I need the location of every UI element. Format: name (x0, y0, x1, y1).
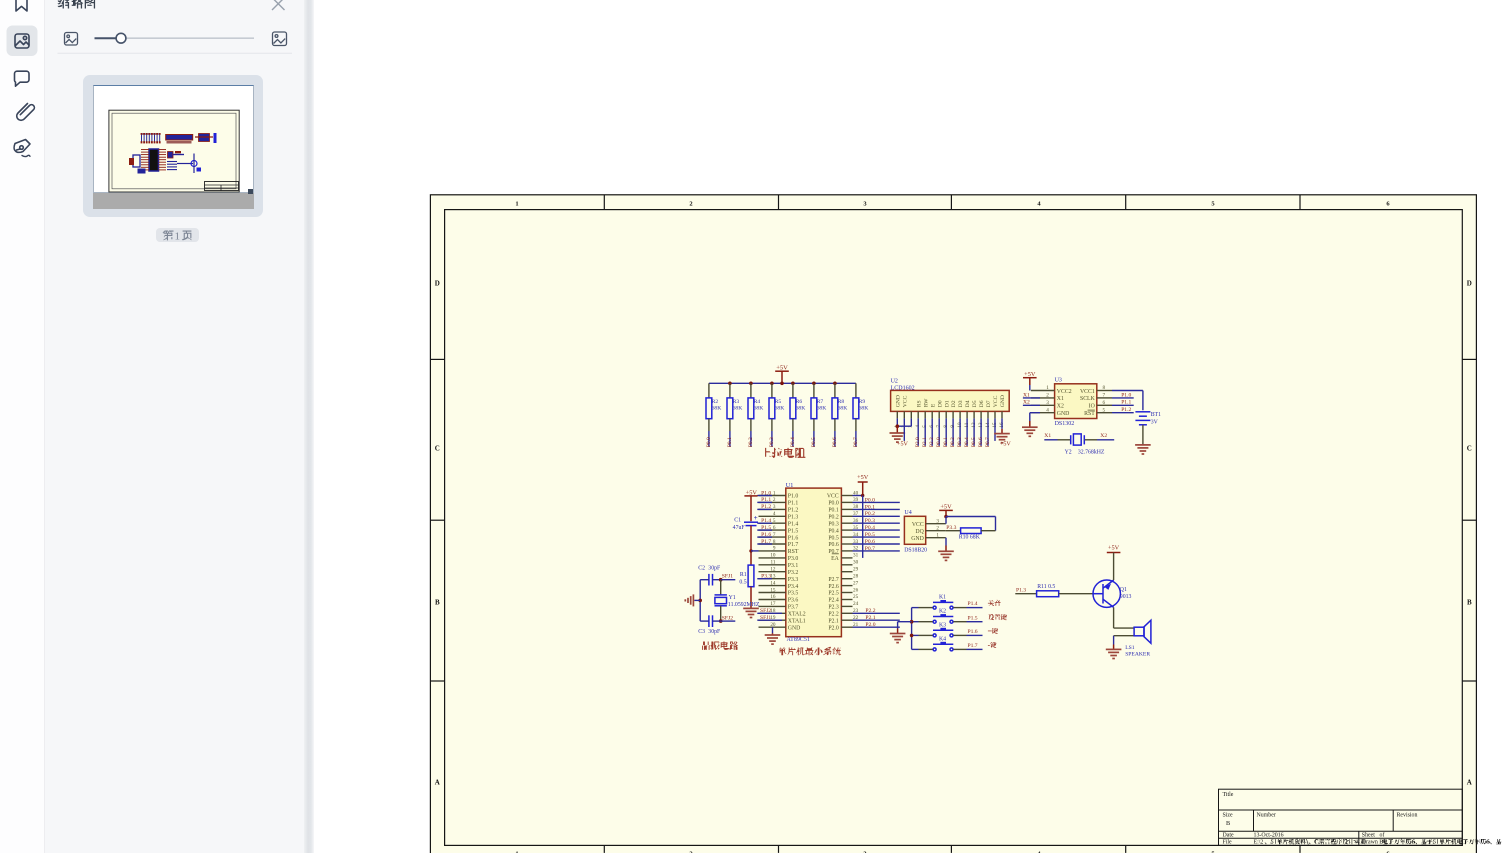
wire DS18B20 GND (945, 538, 947, 546)
sheet background (430, 194, 1477, 853)
svg-text:K3: K3 (939, 622, 946, 628)
svg-text:P0.0: P0.0 (828, 501, 839, 507)
svg-text:C3: C3 (698, 629, 705, 635)
svg-text:P1.7: P1.7 (788, 542, 799, 548)
svg-text:P2.2: P2.2 (929, 437, 935, 447)
svg-text:D0: D0 (937, 400, 943, 407)
wire net P1.4 (967, 601, 983, 607)
label key function (988, 614, 1007, 620)
battery BT1 3V (1135, 412, 1161, 426)
svg-text:VCC: VCC (912, 522, 924, 528)
svg-text:15: 15 (770, 587, 776, 593)
svg-text:P0.0: P0.0 (936, 437, 942, 447)
svg-text:68K: 68K (838, 405, 848, 411)
svg-text:Date: Date (1223, 833, 1235, 839)
svg-text:P3.3: P3.3 (788, 577, 799, 583)
wire net SFJ2 (721, 615, 736, 621)
junction SFJ1 (719, 578, 723, 582)
svg-text:GND: GND (1057, 411, 1070, 417)
svg-text:D: D (435, 280, 440, 288)
svg-text:GND: GND (895, 395, 901, 407)
junction (698, 599, 702, 603)
wire LCD pin 8 net P0.1 (943, 418, 949, 447)
svg-text:P0.0: P0.0 (865, 497, 875, 503)
svg-text:P1.7: P1.7 (968, 643, 978, 649)
svg-text:3: 3 (773, 504, 776, 510)
wire U1 GND (772, 627, 774, 633)
wire net P0.0 (853, 497, 900, 503)
svg-text:D: D (1467, 280, 1472, 288)
svg-text:Drawn By: Drawn By (1362, 840, 1386, 846)
svg-text:Sheet: Sheet (1362, 833, 1375, 839)
wire net P1.3 (1015, 588, 1036, 594)
wire net P1.2 (1112, 407, 1134, 413)
label key function (988, 600, 1001, 606)
svg-text:P0.2: P0.2 (865, 511, 875, 517)
svg-text:P1.6: P1.6 (968, 629, 978, 635)
transistor Q1 9013 (1093, 580, 1131, 607)
svg-text:P1.4: P1.4 (788, 521, 799, 527)
wire net P0.4 (790, 431, 796, 447)
wire keys left bus (911, 608, 913, 650)
svg-text:P0.5: P0.5 (828, 535, 839, 541)
svg-text:DS1302: DS1302 (1055, 421, 1075, 427)
svg-text:SFJ1: SFJ1 (722, 574, 733, 580)
svg-text:GND: GND (788, 625, 801, 631)
svg-text:P1.0: P1.0 (788, 494, 799, 500)
svg-text:1: 1 (1046, 385, 1049, 391)
svg-text:7: 7 (773, 532, 776, 538)
svg-text:7: 7 (1103, 393, 1106, 399)
svg-text:P0.4: P0.4 (865, 525, 875, 531)
svg-text:P0.1: P0.1 (727, 437, 733, 447)
svg-text:BT1: BT1 (1151, 412, 1161, 418)
svg-text:VCC: VCC (902, 395, 908, 407)
ground LCD pin1 (890, 426, 906, 442)
svg-text:0.5: 0.5 (739, 580, 746, 586)
svg-text:1: 1 (773, 490, 776, 496)
svg-text:P3.6: P3.6 (788, 598, 799, 604)
svg-text:VCC: VCC (827, 494, 839, 500)
svg-text:X2: X2 (1100, 433, 1107, 439)
svg-text:C1: C1 (734, 518, 741, 524)
svg-text:SPEAKER: SPEAKER (1125, 652, 1150, 658)
resistor R2 68K (706, 383, 721, 431)
svg-text:25: 25 (853, 594, 859, 600)
svg-text:30pF: 30pF (708, 566, 721, 572)
svg-text:D2: D2 (951, 400, 957, 407)
caption crystal circuit (702, 641, 738, 649)
svg-text:R2: R2 (712, 399, 719, 405)
wire net P0.0 (706, 431, 712, 447)
wire net P0.2 (853, 511, 900, 517)
svg-text:P1.0: P1.0 (1121, 392, 1131, 398)
svg-text:3: 3 (936, 518, 939, 524)
junction (791, 382, 795, 386)
svg-text:GND: GND (1000, 395, 1006, 407)
svg-text:P2.0: P2.0 (915, 437, 921, 447)
svg-text:R8: R8 (838, 399, 845, 405)
wire EA to +5V (862, 496, 864, 558)
wire net P1.0 (1112, 392, 1134, 398)
svg-text:DQ: DQ (915, 529, 924, 535)
svg-text:VCC1: VCC1 (1080, 389, 1095, 395)
IC U2 LCD1602 (891, 378, 1010, 427)
wire net P2.1 (853, 615, 900, 621)
svg-text:P2.2: P2.2 (828, 612, 839, 618)
svg-text:P1.6: P1.6 (761, 532, 771, 538)
svg-text:P1.5: P1.5 (968, 615, 978, 621)
wire net P0.5 (811, 431, 817, 447)
svg-text:XTAL2: XTAL2 (788, 612, 806, 618)
svg-text:EA: EA (831, 556, 840, 562)
wire RST stub (751, 550, 759, 552)
svg-text:P0.5: P0.5 (811, 437, 817, 447)
svg-text:1: 1 (515, 201, 518, 208)
node +5V LCD pin2 (897, 418, 908, 447)
svg-text:P1.2: P1.2 (1121, 407, 1131, 413)
capacitor C1 47uF (733, 514, 758, 531)
wire net P0.7 (853, 431, 859, 447)
wire LCD GND/V0 (897, 418, 911, 426)
svg-text:R11 0.5: R11 0.5 (1037, 584, 1055, 590)
svg-text:P1.2: P1.2 (761, 504, 771, 510)
svg-text:Y2: Y2 (1065, 449, 1072, 455)
wire net P0.7 (853, 546, 900, 552)
svg-text:P2.1: P2.1 (828, 618, 839, 624)
svg-text:B: B (1467, 599, 1472, 607)
junction (728, 382, 732, 386)
svg-text:9013: 9013 (1120, 594, 1132, 600)
svg-text:P0.6: P0.6 (832, 437, 838, 447)
wire LCD pin 14 net P0.7 (985, 418, 991, 447)
svg-text:P2.3: P2.3 (828, 605, 839, 611)
svg-text:E: E (930, 403, 936, 407)
label net P1.2 on U1 pin 3 (757, 504, 772, 510)
node +5V DS1302 (1023, 371, 1037, 390)
svg-text:K4: K4 (939, 636, 946, 642)
wire net P0.1 (853, 504, 900, 510)
node +5V DS18B20 (939, 504, 953, 517)
svg-text:P0.6: P0.6 (828, 542, 839, 548)
svg-text:P0.1: P0.1 (943, 437, 949, 447)
junction SFJ2 (719, 619, 723, 623)
wire net P0.4 (853, 525, 900, 531)
svg-text:XTAL1: XTAL1 (788, 618, 806, 624)
svg-text:3V: 3V (1151, 419, 1159, 425)
wire net P1.1 (1112, 400, 1134, 406)
junction (812, 382, 816, 386)
wire net SFJ1 (721, 574, 736, 580)
svg-text:D7: D7 (986, 400, 992, 407)
svg-text:SFJ2: SFJ2 (760, 608, 771, 614)
wire VCC1 to battery (1112, 391, 1143, 411)
svg-text:C: C (435, 445, 440, 453)
svg-text:+5V: +5V (1108, 544, 1120, 551)
svg-text:32.768kHZ: 32.768kHZ (1078, 449, 1105, 455)
svg-text:P0.2: P0.2 (828, 515, 839, 521)
wire LCD pin 9 net P0.2 (950, 418, 956, 447)
wire keys to ground (898, 622, 912, 629)
ground U1 (765, 633, 781, 644)
svg-text:X1: X1 (1057, 396, 1064, 402)
svg-text:U4: U4 (904, 510, 911, 516)
ground battery (1135, 425, 1151, 454)
node +5V Q1 (1107, 544, 1121, 580)
svg-text:68K: 68K (859, 405, 869, 411)
ground speaker (1106, 645, 1122, 659)
file path text (1254, 838, 1502, 845)
crystal Y1 11.0592MHZ (715, 580, 760, 621)
svg-text:A: A (435, 779, 440, 787)
wire net P0.6 (853, 539, 900, 545)
svg-text:P1.7: P1.7 (761, 539, 771, 545)
svg-text:R10 68K: R10 68K (959, 534, 981, 540)
svg-text:+5V: +5V (940, 504, 952, 511)
svg-text:+: + (754, 514, 758, 522)
svg-text:SFJ2: SFJ2 (722, 615, 733, 621)
svg-text:P0.0: P0.0 (706, 437, 712, 447)
junction (770, 382, 774, 386)
wire LCD pin 13 net P0.6 (978, 418, 984, 447)
svg-text:X2: X2 (1023, 400, 1030, 406)
svg-text:R4: R4 (754, 399, 761, 405)
wire DS1302 GND (1030, 413, 1040, 421)
svg-text:P3.3: P3.3 (761, 574, 771, 580)
svg-text:+5V: +5V (897, 442, 908, 448)
svg-text:RST: RST (1084, 411, 1095, 417)
resistor R6 68K (790, 383, 805, 431)
svg-text:R3: R3 (733, 399, 740, 405)
svg-text:GND: GND (911, 536, 924, 542)
svg-text:P2.0: P2.0 (828, 625, 839, 631)
svg-text:P3.0: P3.0 (788, 556, 799, 562)
crystal Y2 32.768kHZ (1044, 433, 1114, 445)
wire LCD pin 12 net P0.5 (971, 418, 977, 447)
svg-text:4: 4 (773, 511, 776, 517)
label net P1.5 on U1 pin 6 (757, 525, 772, 531)
svg-text:P3.1: P3.1 (788, 563, 799, 569)
svg-text:P3.7: P3.7 (788, 605, 799, 611)
svg-text:P2.4: P2.4 (828, 598, 839, 604)
wire LCD pin 5 net P2.1 (922, 418, 928, 447)
svg-text:RW: RW (923, 398, 929, 407)
wire LCD pin 7 net P0.0 (936, 418, 942, 447)
svg-text:of: of (1380, 832, 1385, 839)
svg-text:P0.5: P0.5 (971, 437, 977, 447)
svg-text:3: 3 (1046, 400, 1049, 406)
svg-text:P0.1: P0.1 (828, 508, 839, 514)
svg-text:P1.1: P1.1 (1121, 400, 1131, 406)
svg-text:P2.7: P2.7 (828, 577, 839, 583)
svg-text:P0.4: P0.4 (828, 528, 839, 534)
svg-text:P0.2: P0.2 (950, 437, 956, 447)
wire net P2.0 (853, 622, 900, 628)
label key function (988, 642, 997, 648)
junction (910, 634, 914, 638)
label net P1.1 on U1 pin 2 (757, 497, 772, 503)
svg-text:+5V: +5V (857, 474, 869, 481)
pushbutton K3 (912, 622, 967, 637)
ground LCD pin16 (994, 418, 1010, 442)
IC U3 DS1302 (1031, 378, 1112, 427)
IC U1 AT89C51 (759, 482, 859, 643)
svg-text:P3.5: P3.5 (788, 591, 799, 597)
svg-text:P1.3: P1.3 (1016, 588, 1026, 594)
resistor R7 68K (811, 383, 826, 431)
svg-text:5: 5 (1103, 407, 1106, 413)
wire pull-up bus (709, 382, 856, 384)
svg-text:P0.7: P0.7 (985, 437, 991, 447)
svg-text:B: B (1226, 820, 1230, 827)
svg-text:E:\2: E:\2 (1254, 840, 1264, 846)
svg-text:D6: D6 (979, 400, 985, 407)
svg-text:68K: 68K (775, 405, 785, 411)
svg-text:SCLK: SCLK (1080, 396, 1096, 402)
svg-text:P0.3: P0.3 (865, 518, 875, 524)
resistor R8 68K (832, 383, 847, 431)
svg-text:D4: D4 (965, 400, 971, 407)
label key function (988, 628, 998, 634)
svg-text:5: 5 (773, 518, 776, 524)
svg-text:Title: Title (1223, 792, 1234, 798)
svg-text:P1.3: P1.3 (788, 515, 799, 521)
svg-text:RS: RS (916, 400, 922, 407)
svg-text:68K: 68K (796, 405, 806, 411)
svg-text:C2: C2 (698, 566, 705, 572)
ground R1 (743, 587, 759, 618)
svg-text:P1.4: P1.4 (761, 518, 771, 524)
svg-text:8: 8 (773, 539, 776, 545)
svg-text:1: 1 (936, 532, 939, 538)
svg-text:8: 8 (1103, 385, 1106, 391)
svg-text:28: 28 (853, 574, 859, 580)
resistor R10 68K (946, 528, 996, 540)
svg-text:R9: R9 (859, 399, 866, 405)
svg-text:47uF: 47uF (733, 525, 746, 531)
svg-text:DS18B20: DS18B20 (904, 547, 927, 553)
svg-text:B: B (435, 599, 440, 607)
svg-text:P0.3: P0.3 (769, 437, 775, 447)
wire LCD pin 4 net P2.0 (915, 418, 921, 447)
svg-text:Q1: Q1 (1120, 587, 1127, 593)
svg-text:P2.6: P2.6 (828, 584, 839, 590)
node +5V U1 VCC (857, 474, 869, 496)
label net P1.6 on U1 pin 7 (757, 532, 772, 538)
svg-text:P0.6: P0.6 (978, 437, 984, 447)
resistor R3 68K (727, 383, 742, 431)
svg-text:29: 29 (853, 567, 859, 573)
svg-text:X1: X1 (1044, 433, 1051, 439)
svg-text:P1.2: P1.2 (788, 508, 799, 514)
svg-text:11.0592MHZ: 11.0592MHZ (728, 602, 760, 608)
wire LCD pin 11 net P0.4 (964, 418, 970, 447)
wire net P0.3 (769, 431, 775, 447)
svg-text:File: File (1223, 840, 1233, 846)
svg-text:68K: 68K (712, 405, 722, 411)
svg-text:D1: D1 (944, 400, 950, 407)
label net P1.7 on U1 pin 8 (757, 539, 772, 545)
svg-text:2: 2 (1046, 393, 1049, 399)
junction (749, 382, 753, 386)
svg-text:IO: IO (1089, 404, 1095, 410)
svg-text:VCC: VCC (993, 395, 999, 407)
svg-text:6: 6 (773, 525, 776, 531)
svg-text:4: 4 (1046, 407, 1049, 413)
svg-text:D5: D5 (972, 400, 978, 407)
wire C1 to RST (750, 526, 752, 566)
svg-text:6: 6 (1103, 400, 1106, 406)
svg-text:27: 27 (853, 580, 859, 586)
svg-text:31: 31 (853, 553, 859, 559)
svg-text:11: 11 (771, 560, 776, 566)
svg-text:26: 26 (853, 587, 859, 593)
label net P1.0 on U1 pin 1 (757, 490, 772, 496)
svg-text:U3: U3 (1055, 378, 1062, 384)
svg-text:P2.5: P2.5 (828, 591, 839, 597)
svg-text:P0.3: P0.3 (957, 437, 963, 447)
label net SFJ2 on U1 pin 18 (757, 608, 782, 614)
svg-text:P0.1: P0.1 (865, 504, 875, 510)
svg-text:P1.1: P1.1 (761, 497, 771, 503)
svg-text:P2.1: P2.1 (865, 615, 875, 621)
svg-text:24: 24 (853, 601, 859, 607)
wire crystal left bus (699, 580, 701, 621)
schematic page (430, 194, 1502, 853)
svg-text:P2.2: P2.2 (865, 608, 875, 614)
resistor R1 0.5 (739, 565, 754, 587)
junction RST (749, 549, 752, 552)
wire emitter to speaker (1113, 607, 1115, 628)
svg-text:D3: D3 (958, 400, 964, 407)
ground DS1302 (1022, 421, 1038, 436)
svg-text:10: 10 (770, 553, 776, 559)
svg-text:P3.4: P3.4 (788, 584, 799, 590)
svg-text:C: C (1467, 445, 1472, 453)
svg-text:VCC2: VCC2 (1057, 389, 1072, 395)
svg-text:30pF: 30pF (708, 629, 721, 635)
wire net P0.6 (832, 431, 838, 447)
wire net X2 (1023, 400, 1040, 406)
wire net P0.5 (853, 532, 900, 538)
wire net P1.7 (967, 643, 983, 649)
svg-text:R6: R6 (796, 399, 803, 405)
svg-text:K1: K1 (939, 595, 946, 601)
svg-text:P1.0: P1.0 (761, 490, 771, 496)
pushbutton K1 (912, 595, 967, 610)
wire +5V to R10 (946, 517, 996, 531)
svg-text:68K: 68K (817, 405, 827, 411)
wire net P1.6 (967, 629, 983, 635)
svg-text:P1.4: P1.4 (968, 601, 978, 607)
label net SFJ1 on U1 pin 19 (757, 615, 782, 621)
wire LCD pin 10 net P0.3 (957, 418, 963, 447)
caption MCU minimal system (778, 647, 841, 656)
ground DS18B20 (938, 546, 954, 561)
wire VCC (945, 517, 947, 524)
svg-text:9: 9 (773, 546, 776, 552)
resistor R5 68K (769, 383, 784, 431)
capacitor C2 30pF (698, 566, 721, 586)
svg-text:P0.7: P0.7 (865, 546, 875, 552)
junction (896, 424, 900, 428)
svg-text:P1.6: P1.6 (788, 535, 799, 541)
svg-text:R5: R5 (775, 399, 782, 405)
svg-text:68K: 68K (754, 405, 764, 411)
svg-text:P2.0: P2.0 (865, 622, 875, 628)
svg-text:U2: U2 (891, 378, 898, 384)
svg-text:RST: RST (788, 549, 799, 555)
